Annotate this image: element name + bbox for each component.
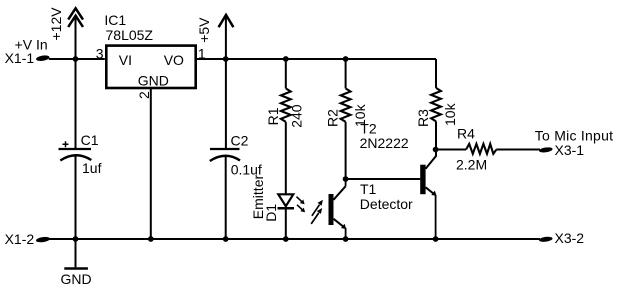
wire +12V vertical [75,16,77,149]
wire C1 bottom to ground rail [75,155,77,239]
svg-text:T1: T1 [360,181,377,197]
svg-text:240: 240 [288,104,304,128]
wire R2 to node B [345,122,347,179]
svg-text:1: 1 [198,45,206,61]
svg-text:1uf: 1uf [82,160,102,176]
node dot top +5V [223,56,229,62]
node dot bottom C1 [73,236,79,242]
terminal X3-2 [539,236,553,243]
transistor T2 [420,150,436,240]
node dot top R2 [343,56,349,62]
node dot R4 junction [433,147,439,153]
svg-text:R2: R2 [325,109,341,127]
node dot top R1 [283,56,289,62]
node dot bottom T1 [343,236,349,242]
wire bottom ground rail [49,238,540,240]
wire top right from IC pin1 [197,58,436,60]
wire R2 top lead [345,59,347,88]
svg-text:IC1: IC1 [104,12,126,28]
ground symbol [64,267,88,270]
svg-text:+12V: +12V [48,7,64,41]
wire R4 right lead to X3-1 [496,149,540,151]
wire R1 top lead [285,59,287,88]
terminal X1-2 [36,236,51,243]
power arrow +5V [219,15,234,27]
svg-text:D1: D1 [263,204,279,222]
svg-text:X1-1: X1-1 [5,50,35,66]
node dot base junction [343,176,349,182]
svg-text:GND: GND [61,271,92,287]
voltage regulator IC1 [106,46,195,88]
svg-text:X3-1: X3-1 [555,142,585,158]
wire R1 to D1 [285,122,287,194]
wire top main [49,58,105,60]
LED D1 [278,194,306,212]
wire D1 to ground rail [285,209,287,240]
svg-text:78L05Z: 78L05Z [106,27,154,43]
svg-text:2.2M: 2.2M [456,157,487,173]
terminal X1-1 [36,55,50,62]
svg-text:R4: R4 [457,126,475,142]
wire base T1-T2 [346,178,421,180]
svg-text:+5V: +5V [196,17,212,43]
svg-text:2N2222: 2N2222 [360,135,409,151]
svg-text:2: 2 [136,91,152,99]
svg-text:X3-2: X3-2 [555,230,585,246]
svg-text:10k: 10k [442,102,458,126]
wire R3 bottom lead [435,121,437,149]
svg-text:C2: C2 [231,133,249,149]
node dot bottom D1 [283,236,289,242]
svg-text:+V In: +V In [15,36,48,52]
resistor R3 [431,88,441,122]
node dot bottom T2 [433,236,439,242]
wire R3 corner lead [435,59,437,88]
svg-text:C1: C1 [81,132,99,148]
terminal X3-1 [539,147,553,154]
svg-text:R1: R1 [265,107,281,125]
svg-text:R3: R3 [415,109,431,127]
resistor R4 [466,144,496,154]
resistor R2 [341,88,351,122]
wire +5V vertical [225,17,227,149]
wire ground stub [75,239,77,267]
svg-text:Detector: Detector [360,196,413,212]
svg-text:VO: VO [164,52,184,68]
svg-text:X1-2: X1-2 [5,231,35,247]
svg-text:3: 3 [96,46,104,62]
svg-text:GND: GND [138,73,169,89]
resistor R1 [281,88,291,122]
svg-text:VI: VI [119,52,132,68]
node dot bottom C2 [223,236,229,242]
wire IC pin2 down [150,89,152,239]
node dot top +12V [73,56,79,62]
wire R4 left lead [436,149,467,151]
node dot bottom pin2 [148,236,154,242]
power arrow +12V [68,8,83,27]
wire C2 bottom [225,155,227,239]
svg-text:To Mic Input: To Mic Input [535,127,613,143]
transistor T1 (photo detector) [311,179,346,239]
capacitor C1 [59,141,92,160]
capacitor C2 [210,149,240,161]
